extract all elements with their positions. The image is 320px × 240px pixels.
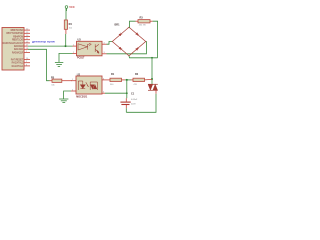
U1 pin numbers	[26, 29, 29, 67]
svg-text:PC817: PC817	[77, 57, 85, 60]
svg-text:0.68uF: 0.68uF	[131, 99, 138, 101]
wire bridge top to R3 left	[129, 21, 136, 27]
resistor R4	[64, 20, 72, 46]
ground symbol 2	[59, 99, 68, 103]
wire U3 pin4 to bridge left vertex	[107, 42, 113, 45]
wire U2 pin4 to C1 node	[105, 92, 127, 94]
wire chip pin6 to opto U3 pin1	[28, 45, 73, 47]
node junction R4/wire	[65, 45, 67, 47]
U2 pin stubs	[71, 80, 107, 93]
junction node R1/R2/C1	[125, 79, 131, 81]
wire R5 from chip pin7	[28, 49, 50, 80]
svg-text:R3: R3	[140, 16, 144, 19]
wire bridge bottom rail	[129, 56, 158, 58]
triac VS1	[148, 84, 158, 90]
opto-coupler U3 (PC817) body	[77, 39, 103, 60]
node on rail at x152	[151, 57, 153, 59]
VCC power symbol	[65, 5, 75, 11]
svg-text:10k: 10k	[69, 27, 72, 29]
U2 internal LED symbol	[78, 81, 88, 90]
resistor R2	[131, 73, 152, 86]
svg-text:детектор нуля: детектор нуля	[32, 41, 55, 44]
svg-text:400V: 400V	[131, 103, 136, 105]
svg-text:MOC3021: MOC3021	[76, 96, 88, 99]
svg-text:10k: 10k	[51, 85, 54, 87]
capacitor C1	[120, 93, 138, 113]
wire junction down to C1	[126, 80, 128, 98]
svg-text:R4: R4	[69, 23, 73, 26]
U3 pin numbers	[73, 43, 106, 55]
resistor R5	[50, 76, 73, 86]
svg-text:RA1/XTAL1: RA1/XTAL1	[12, 65, 24, 68]
wire down to gate node	[151, 58, 153, 79]
svg-text:R1: R1	[111, 73, 115, 76]
wire VCC to R4	[65, 8, 67, 20]
svg-text:470: 470	[134, 84, 138, 86]
bridge rectifier BR1	[112, 27, 145, 56]
U3 internal LED symbol	[78, 43, 91, 50]
U3 internal transistor symbol	[95, 44, 99, 54]
wire R3 right down right edge	[153, 21, 158, 58]
wire U3 pin2 to ground	[59, 53, 73, 62]
U3 pin stubs	[73, 44, 107, 54]
svg-text:C1: C1	[131, 93, 135, 96]
U1 pin stubs right	[24, 30, 30, 66]
svg-text:43k 1W: 43k 1W	[139, 25, 146, 27]
wire U3 pin3 to bridge right vertex	[107, 42, 147, 54]
wire U2 pin2 to ground	[64, 91, 71, 99]
U2 pin numbers	[72, 78, 105, 93]
resistor R3	[136, 16, 153, 26]
wire triac bottom to bottom rail	[155, 91, 157, 94]
resistor R1	[107, 73, 126, 86]
wire gate node to triac	[151, 79, 153, 84]
svg-text:RA5/MCLR: RA5/MCLR	[12, 51, 24, 54]
opto-triac U2 (MOC3021) body	[76, 73, 102, 98]
ground symbol 1	[55, 62, 63, 66]
svg-text:VCC: VCC	[69, 5, 75, 9]
svg-text:360: 360	[110, 84, 114, 86]
U1 pin labels	[3, 29, 24, 68]
BR1 diode marks	[119, 32, 139, 50]
svg-text:BR1: BR1	[115, 24, 121, 27]
U2 internal triac symbol	[90, 82, 97, 90]
svg-text:R2: R2	[135, 73, 139, 76]
gate node junction	[151, 78, 153, 80]
microcontroller U1 body	[2, 28, 24, 71]
